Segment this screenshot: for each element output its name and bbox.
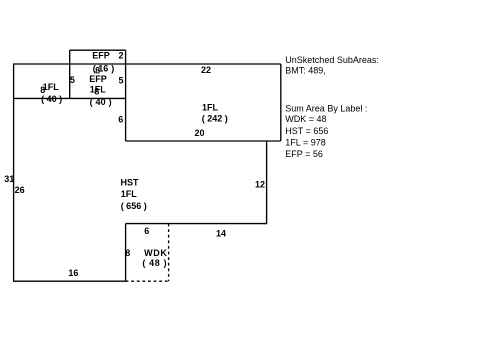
wall: WDK dashed bottom horizontal: [126, 280, 169, 282]
wall: horizontal at y=141 (bottom of 1FL 242): [126, 140, 281, 142]
wall: horizontal at y=223.7: [126, 223, 267, 225]
svg-text:BMT: 489,: BMT: 489,: [285, 66, 326, 76]
svg-text:12: 12: [255, 179, 265, 189]
svg-text:( 40 ): ( 40 ): [41, 94, 62, 104]
wall: EFP box top: [70, 49, 126, 51]
svg-text:1FL: 1FL: [43, 82, 60, 92]
wall: vertical x=125.7 lower (8 ft, WDK left): [125, 224, 127, 282]
wall: EFP box right vertical + 1FL(242) left edge: [125, 50, 127, 141]
svg-text:( 656 ): ( 656 ): [121, 201, 147, 211]
svg-text:1FL: 1FL: [202, 103, 219, 113]
wall: WDK dashed right vertical: [168, 224, 170, 282]
svg-text:WDK = 48: WDK = 48: [285, 114, 326, 124]
svg-text:EFP: EFP: [92, 51, 110, 61]
svg-text:6: 6: [118, 115, 123, 125]
wall: interior horizontal at y=97.9: [13, 97, 126, 99]
svg-text:8: 8: [125, 248, 130, 258]
svg-text:1FL: 1FL: [121, 189, 138, 199]
svg-text:8: 8: [94, 86, 99, 96]
svg-text:1FL = 978: 1FL = 978: [285, 138, 325, 148]
svg-text:): ): [111, 63, 114, 73]
svg-text:HST = 656: HST = 656: [285, 126, 328, 136]
svg-text:5: 5: [70, 75, 75, 85]
svg-text:EFP: EFP: [89, 74, 107, 84]
svg-text:6: 6: [144, 226, 149, 236]
wall: left vertical (31 ft): [13, 64, 15, 282]
svg-text:20: 20: [194, 128, 204, 138]
svg-text:UnSketched SubAreas:: UnSketched SubAreas:: [285, 55, 379, 65]
svg-text:WDK: WDK: [144, 248, 167, 258]
svg-text:( 48 ): ( 48 ): [142, 258, 167, 268]
svg-text:2: 2: [118, 51, 123, 61]
wall: bottom horizontal solid (16 ft): [13, 280, 126, 282]
svg-text:Sum Area By Label :: Sum Area By Label :: [285, 103, 367, 113]
svg-text:( 242 ): ( 242 ): [202, 113, 228, 123]
wall: EFP box left vertical: [69, 50, 71, 98]
svg-text:26: 26: [15, 185, 25, 195]
svg-text:22: 22: [201, 65, 211, 75]
wall: top horizontal: [13, 63, 281, 65]
svg-text:31: 31: [4, 174, 14, 184]
svg-text:14: 14: [216, 229, 226, 239]
svg-text:16: 16: [68, 268, 78, 278]
svg-text:HST: HST: [121, 178, 140, 188]
wall: right vertical of 1FL(242) rect: [280, 64, 282, 141]
svg-text:5: 5: [118, 75, 123, 85]
svg-text:( 40 ): ( 40 ): [90, 97, 112, 107]
wall: vertical x=266.7 (12 ft): [266, 141, 268, 224]
svg-text:EFP = 56: EFP = 56: [285, 149, 323, 159]
